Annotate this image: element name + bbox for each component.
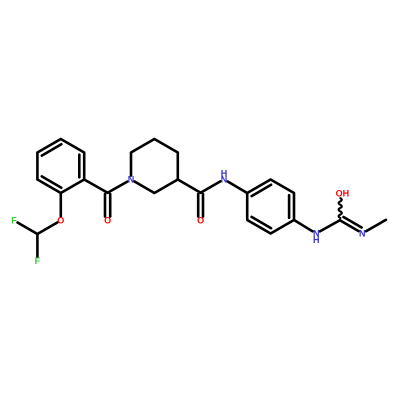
wavy bond central C to OH [339, 198, 342, 218]
C=N double bond main line [340, 220, 359, 231]
bond amide C to amide N [201, 181, 221, 192]
svg-text:F: F [11, 216, 17, 226]
piperidine ring [131, 139, 178, 193]
svg-text:F: F [35, 256, 41, 266]
amide C=O double bond line 2 [202, 194, 205, 217]
ring2 aromatic inner bond right [288, 195, 291, 218]
bond ring1 to ether O [59, 193, 62, 217]
bond urea N to central C [320, 220, 340, 231]
svg-text:N: N [128, 175, 135, 185]
svg-text:H: H [313, 235, 320, 245]
ring1 aromatic inner bond right [78, 155, 81, 178]
C=N double bond second line [344, 217, 362, 228]
bond imine N to methyl [366, 220, 386, 231]
bond amide N to ring2 [228, 182, 248, 194]
svg-text:OH: OH [336, 189, 350, 199]
ring1 aromatic inner bond bottom-left [42, 176, 62, 187]
bond CHF2 to F1 [18, 223, 38, 235]
svg-text:H: H [221, 168, 228, 178]
amide C=O double bond line 1 [197, 194, 200, 217]
ring1 aromatic inner bond top-left [42, 144, 62, 155]
bond ring1 to benzoyl C [84, 180, 107, 193]
svg-text:O: O [197, 216, 204, 226]
benzene ring 2 [247, 180, 294, 234]
ring2 aromatic inner bond top-left [252, 185, 272, 196]
svg-text:N: N [359, 229, 366, 239]
bond ether O to CHF2 [37, 223, 57, 235]
benzene ring 1 [37, 139, 84, 193]
bond piperidine C3 to amide C [178, 180, 201, 193]
svg-text:O: O [57, 216, 64, 226]
bond CHF2 to F2 [36, 234, 39, 257]
bond benzoyl C to piperidine N [108, 182, 128, 193]
benzoyl C=O double bond line 2 [109, 194, 112, 217]
bond ring2 to urea N [294, 220, 313, 231]
ring2 aromatic inner bond bottom-left [252, 217, 272, 228]
benzoyl C=O double bond line 1 [104, 194, 107, 217]
svg-text:O: O [104, 216, 111, 226]
